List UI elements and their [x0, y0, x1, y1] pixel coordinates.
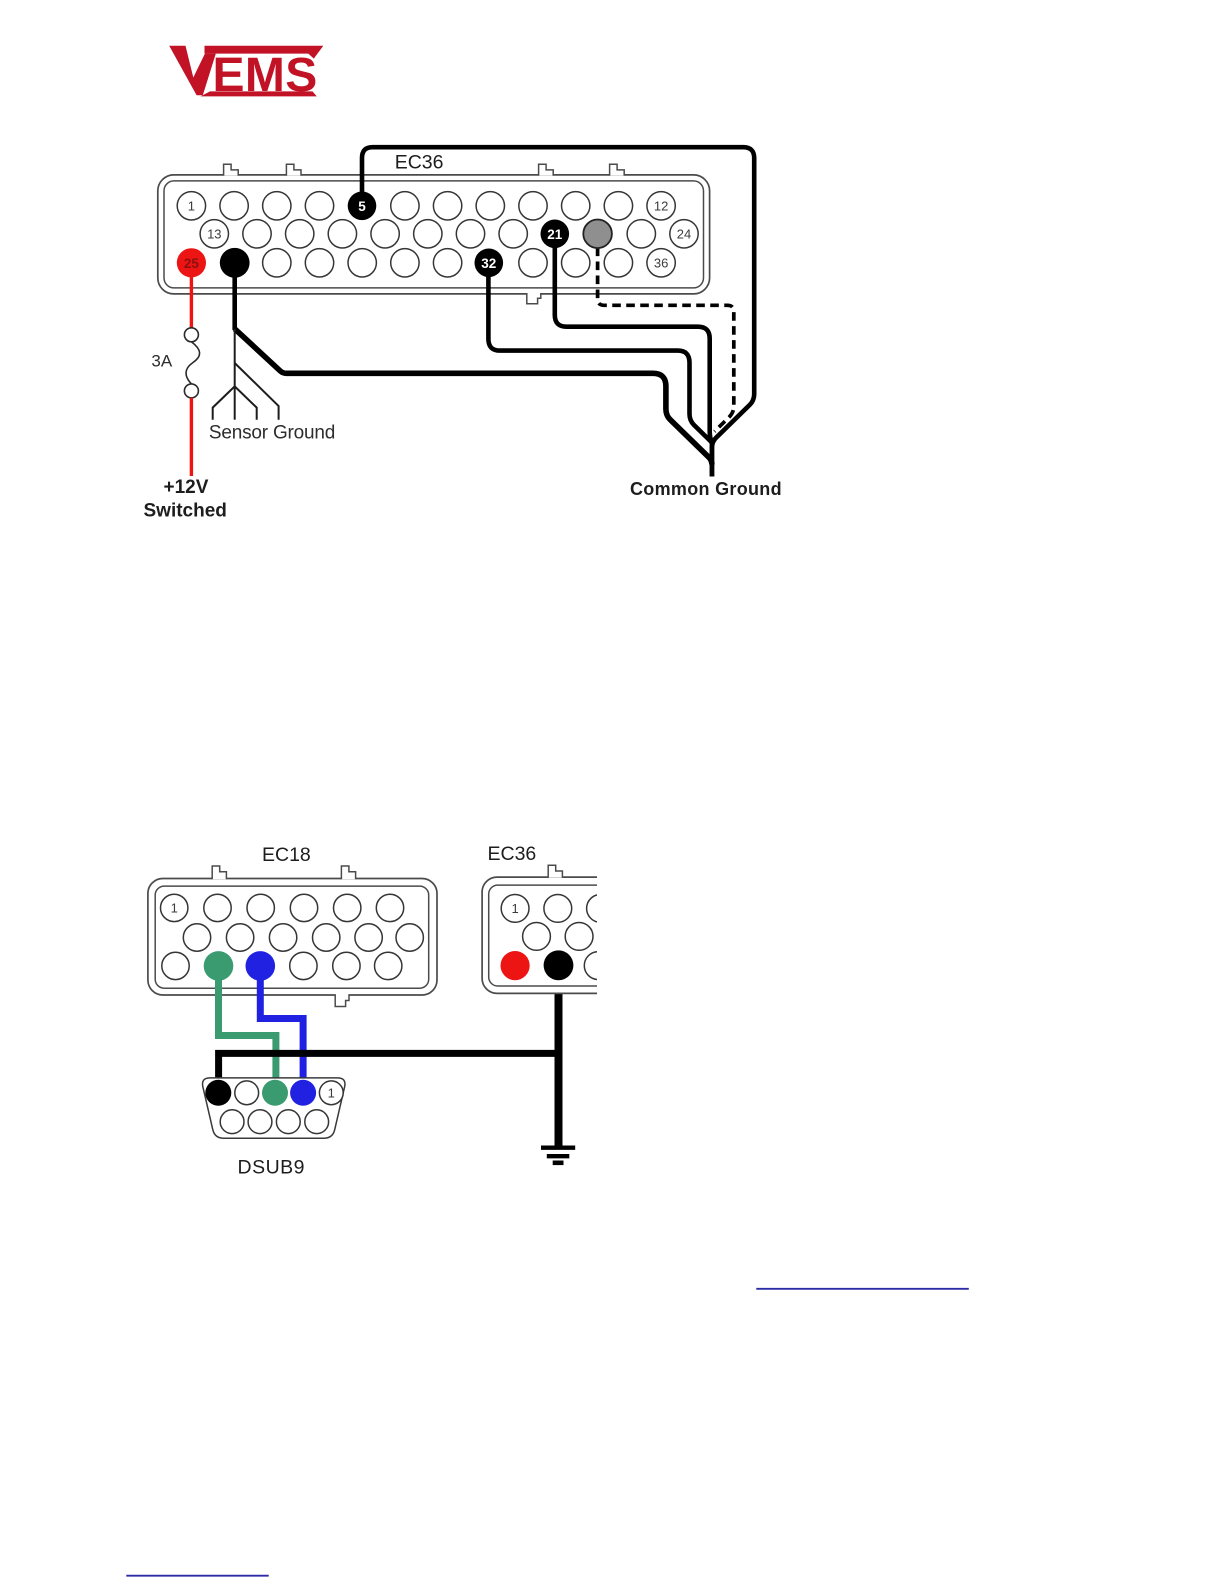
pin 9 [519, 192, 547, 220]
svg-text:+12V: +12V [164, 477, 209, 498]
EC36-2 pins row1 [501, 895, 614, 923]
DSUB9 pin 6 [220, 1110, 244, 1134]
EC18 green pin [204, 951, 234, 981]
pin 23 [627, 220, 655, 248]
connector EC36 body inner [164, 181, 704, 288]
EC36-2 pin 14 [565, 923, 593, 951]
pin 26 filled [220, 248, 250, 278]
wire junction vertical to Common Ground [710, 440, 715, 477]
pin 36 [647, 249, 675, 277]
pin 29 [348, 249, 376, 277]
tab 3 top [539, 164, 554, 175]
EC18 pin 12 [396, 924, 423, 951]
svg-text:Common Ground: Common Ground [630, 479, 782, 499]
EC36 pins row 2 [200, 220, 698, 248]
EC36-2 pin 13 [523, 923, 551, 951]
EC36-2 tab [548, 865, 562, 878]
pin 35 [604, 249, 632, 277]
pin 22 gray [583, 220, 612, 249]
EC18 pin 5 [334, 894, 361, 921]
EC18 pin 7 [183, 924, 210, 951]
pin 3 [263, 192, 291, 220]
tab 4 top [610, 164, 625, 175]
svg-text:21: 21 [547, 227, 563, 242]
pin 25 red [177, 248, 206, 277]
pin 4 [305, 192, 333, 220]
ground symbol line 3 [553, 1161, 564, 1166]
sensor ground stem [234, 329, 236, 387]
EC18 pins row 3 [162, 952, 402, 979]
DSUB9 pin black [205, 1080, 231, 1106]
tab 2 top [286, 164, 301, 175]
wire pin26 black down [232, 263, 237, 330]
pin 21 filled [541, 220, 570, 249]
link underline 1 [756, 1288, 969, 1290]
pin 5 filled [348, 192, 377, 221]
EC18 pin 18 [375, 952, 402, 979]
svg-text:EC36: EC36 [488, 843, 537, 865]
DSUB9 pin blue [290, 1080, 316, 1106]
pin 27 [263, 249, 291, 277]
DSUB9 pin green [262, 1080, 288, 1106]
EC36-2 pin 1 [501, 895, 529, 923]
EC18 blue pin [245, 951, 275, 981]
EC18 pin 10 [313, 924, 340, 951]
EC36-2 black pin [544, 950, 574, 980]
EC36-2 inner [489, 885, 717, 986]
blue wire EC18 to DSUB9 [260, 966, 303, 1093]
EC36-2 pins row2 [523, 923, 636, 951]
pin 18 [414, 220, 442, 248]
svg-text:5: 5 [358, 199, 366, 214]
DSUB9 pin 9 [305, 1110, 329, 1134]
pin 33 [519, 249, 547, 277]
DSUB9 pin white 1 [235, 1081, 259, 1105]
EC18 pin 1 [161, 894, 188, 921]
EC18 tab 2 [341, 866, 355, 879]
EC18 pin 13 [162, 952, 189, 979]
pin 8 [476, 192, 504, 220]
wire pin5 to common ground (top route) [362, 147, 754, 476]
pin 24 [670, 220, 698, 248]
pin 32 filled [475, 248, 504, 277]
EC36 pins row 1 [177, 192, 675, 220]
svg-text:Switched: Switched [144, 501, 227, 522]
sensor ground fork middle [234, 386, 236, 419]
svg-text:Sensor Ground: Sensor Ground [209, 423, 335, 444]
wire sensor-ground branch to common ground (thick) [235, 329, 712, 465]
pin 17 [371, 220, 399, 248]
wire pin21 [555, 234, 712, 444]
fuse bottom circle [184, 384, 198, 398]
pin 12 [647, 192, 675, 220]
pin 7 [433, 192, 461, 220]
DSUB9 pin 7 [248, 1110, 272, 1134]
tab 1 top [224, 164, 239, 175]
connector EC18 outer [148, 879, 437, 996]
fuse top circle [184, 328, 198, 342]
EC18 pin 11 [355, 924, 382, 951]
EC18 pin 6 [376, 894, 403, 921]
svg-text:3A: 3A [151, 352, 172, 371]
pin 19 [456, 220, 484, 248]
pin 13 [200, 220, 228, 248]
sensor ground fork left [213, 386, 235, 419]
black wire DSUB9 to EC36 ground [219, 1053, 559, 1093]
svg-text:EC18: EC18 [262, 844, 311, 866]
ground symbol line 1 [541, 1145, 575, 1149]
EC18 pin 9 [269, 924, 296, 951]
DSUB9 connector body [203, 1078, 345, 1138]
svg-text:1: 1 [511, 901, 518, 916]
EC36-2 pin 3 (clipped) [587, 895, 615, 923]
wire pin25 red upper [190, 263, 193, 328]
EC18 pins row 1 [161, 894, 404, 921]
sensor ground fork right [235, 386, 257, 419]
pin 31 [433, 249, 461, 277]
DSUB9 pin 8 [276, 1110, 300, 1134]
connector EC36 body outer [158, 175, 710, 294]
EC18 pins row 2 [183, 924, 423, 951]
sensor ground fork far right [235, 363, 279, 420]
svg-text:EC36: EC36 [395, 152, 444, 174]
fuse S-curve [186, 342, 200, 384]
EC36-2 pin 2 [544, 895, 572, 923]
EC18 pin 8 [226, 924, 253, 951]
link underline 2 [126, 1575, 268, 1577]
svg-text:36: 36 [654, 255, 668, 270]
dashed wire from gray pin to common ground [598, 248, 734, 432]
DSUB9 bottom row [220, 1110, 328, 1134]
black ground wire from EC36 pin [555, 965, 563, 1149]
svg-text:DSUB9: DSUB9 [238, 1157, 306, 1179]
svg-text:24: 24 [677, 226, 691, 241]
DSUB9 pin 1 [319, 1081, 343, 1105]
svg-text:1: 1 [188, 198, 195, 213]
pin 34 [562, 249, 590, 277]
svg-text:1: 1 [328, 1085, 335, 1100]
EC18 pin 2 [204, 894, 231, 921]
wire red lower to +12V [190, 398, 193, 476]
pin 10 [562, 192, 590, 220]
EC36-2 red pin [500, 951, 529, 980]
svg-text:25: 25 [184, 256, 200, 271]
EC36 pins row 3 [263, 249, 676, 277]
wire pin32 [488, 263, 712, 443]
V glyph [169, 46, 216, 96]
pin 1 [177, 192, 205, 220]
pin 11 [604, 192, 632, 220]
EC18 tab 1 [212, 866, 226, 879]
ground symbol line 2 [547, 1154, 570, 1158]
svg-text:12: 12 [654, 198, 668, 213]
EC18 pin 17 [333, 952, 360, 979]
green wire EC18 to DSUB9 [219, 966, 276, 1093]
pin 20 [499, 220, 527, 248]
bottom notch [528, 292, 540, 295]
pin 14 [243, 220, 271, 248]
svg-text:13: 13 [207, 226, 221, 241]
bottom bar [201, 91, 317, 96]
EC36-2 pin 15 (clipped) [608, 923, 636, 951]
pin 30 [391, 249, 419, 277]
VEMS logo [169, 46, 323, 102]
top bar with hook [205, 46, 324, 59]
EC18 bottom notch [336, 993, 348, 996]
EC18 pin 3 [247, 894, 274, 921]
EC36-2 pins row3 [584, 952, 612, 980]
svg-text:1: 1 [171, 900, 178, 915]
pin 2 [220, 192, 248, 220]
svg-text:32: 32 [481, 256, 496, 271]
pin 6 [391, 192, 419, 220]
EC36-2 outer [482, 877, 722, 993]
pin 28 [305, 249, 333, 277]
EC18 pin 4 [290, 894, 317, 921]
pin 15 [286, 220, 314, 248]
connector EC18 inner [155, 886, 429, 988]
EC18 pin 16 [290, 952, 317, 979]
pin 16 [328, 220, 356, 248]
